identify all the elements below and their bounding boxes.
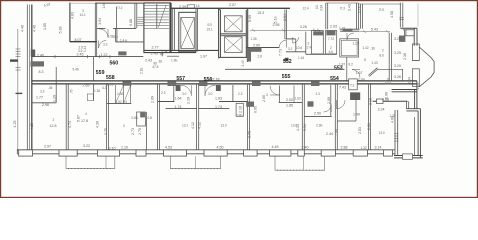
svg-text:3.2: 3.2 <box>288 47 293 51</box>
svg-text:5.28: 5.28 <box>59 27 63 34</box>
svg-text:3.54: 3.54 <box>303 124 307 131</box>
door arc room560a <box>100 29 109 38</box>
svg-text:36: 36 <box>159 59 163 63</box>
svg-text:1.68: 1.68 <box>102 2 106 8</box>
svg-text:3.84: 3.84 <box>320 5 324 11</box>
wall vertical x97.6 pair <box>95 3 96 57</box>
svg-text:554: 554 <box>330 76 339 82</box>
svg-text:2.90: 2.90 <box>253 44 260 48</box>
svg-text:8.3: 8.3 <box>39 70 44 74</box>
svg-text:1.44: 1.44 <box>83 46 87 52</box>
552s step horiz pair <box>406 109 420 111</box>
south wall left corner vert <box>16 149 18 154</box>
svg-text:2.73: 2.73 <box>131 128 135 135</box>
window pier 10 <box>321 150 335 156</box>
svg-text:3.3: 3.3 <box>40 89 45 93</box>
unit divider 557|556 <box>197 84 199 150</box>
svg-text:2.04: 2.04 <box>408 77 412 84</box>
svg-text:2.4: 2.4 <box>307 46 312 50</box>
svg-text:3: 3 <box>266 93 268 97</box>
svg-text:557: 557 <box>176 76 185 82</box>
door leaf top entry <box>187 4 194 8</box>
staircase outer box <box>143 3 171 52</box>
elevator E1 outer <box>179 12 196 52</box>
T3 shaft box <box>340 39 359 57</box>
elevator E3 cross <box>225 37 243 53</box>
hatch sill 554 <box>311 82 320 86</box>
svg-text:1.74: 1.74 <box>175 105 182 109</box>
wall top A y3.2 <box>70 2 95 4</box>
svg-text:5.09: 5.09 <box>248 15 252 22</box>
balcony 1 outline <box>66 156 115 168</box>
556 bath vert <box>232 85 234 102</box>
svg-text:7.43: 7.43 <box>339 85 346 89</box>
552s step vert pair <box>406 101 408 108</box>
wall y69.5 right <box>378 68 403 70</box>
wall top B y8.3 <box>171 7 290 9</box>
staircase steps <box>145 5 169 28</box>
svg-text:1.95: 1.95 <box>107 83 114 87</box>
svg-text:4.25: 4.25 <box>30 123 34 130</box>
svg-text:3.64: 3.64 <box>98 18 102 25</box>
svg-text:4.2: 4.2 <box>102 86 107 90</box>
553 wall x356 <box>355 100 357 121</box>
svg-text:15: 15 <box>196 4 200 8</box>
window pier 6 <box>204 150 227 156</box>
hatch box west wall <box>31 50 35 57</box>
hatch pillar 557 <box>176 85 181 91</box>
svg-text:2.19: 2.19 <box>187 97 191 104</box>
dim line y32 with ticks <box>360 30 390 33</box>
wall internal x116 lower pair <box>116 28 117 42</box>
558 closet verticals <box>116 85 131 103</box>
svg-text:3.25: 3.25 <box>394 37 401 41</box>
svg-text:2.64: 2.64 <box>283 14 287 21</box>
door arc 553 <box>337 100 346 109</box>
559 bath vert x56 <box>55 67 57 103</box>
554 bath vert <box>330 85 332 116</box>
svg-text:1.52 4.4: 1.52 4.4 <box>116 100 128 104</box>
svg-text:13.1: 13.1 <box>182 124 188 128</box>
svg-text:5.46: 5.46 <box>73 68 79 72</box>
wall wc x295.8 <box>295 39 297 52</box>
svg-text:1.49: 1.49 <box>353 112 360 116</box>
bayroom west wall pair <box>389 33 391 81</box>
556 bath wall y101.5 <box>219 101 248 103</box>
window pier 7 <box>244 150 258 156</box>
corridor bottom wall pair <box>32 81 417 84</box>
svg-text:47.8: 47.8 <box>152 65 158 69</box>
svg-text:1.97: 1.97 <box>200 55 207 59</box>
svg-text:1.4 в: 1.4 в <box>120 39 127 43</box>
hatch pillar 556 <box>216 85 221 91</box>
svg-text:2.43: 2.43 <box>145 59 152 63</box>
door arc 552entry <box>279 40 286 48</box>
wall y38.9 <box>286 38 296 40</box>
SE inner east line <box>414 117 416 156</box>
svg-text:1.16: 1.16 <box>298 56 304 60</box>
wall T3 to vestibule <box>346 57 348 69</box>
svg-text:3.20: 3.20 <box>394 64 401 68</box>
557 hall wall y108.4 <box>166 107 197 109</box>
svg-text:1.64: 1.64 <box>175 96 182 100</box>
svg-text:12.4: 12.4 <box>303 7 309 11</box>
wall stair south pair y51.5 <box>143 50 218 52</box>
wall west tick lower <box>16 92 23 94</box>
svg-text:3.43: 3.43 <box>348 4 352 11</box>
hatch block wc b <box>326 30 335 35</box>
svg-text:2.45: 2.45 <box>77 52 84 56</box>
balcony 2 divider <box>195 156 197 168</box>
svg-text:2.43: 2.43 <box>241 60 245 66</box>
svg-text:1.20: 1.20 <box>353 41 359 45</box>
svg-text:4.14: 4.14 <box>296 124 300 131</box>
wall pair x361.5 P5 <box>361 4 363 29</box>
wall y54.3 cells <box>306 53 337 55</box>
svg-text:П.2: П.2 <box>118 6 123 10</box>
svg-text:2.36: 2.36 <box>403 53 407 60</box>
555 bath wall y102.4 <box>279 101 303 103</box>
SE west hatch marks <box>394 134 398 142</box>
svg-text:8.2: 8.2 <box>349 63 354 67</box>
T3 corridor box <box>349 79 358 90</box>
svg-text:8.6: 8.6 <box>380 54 385 58</box>
wall elevator lobby east pair <box>196 8 197 51</box>
554 hatch block <box>308 101 314 106</box>
unit divider 559|558 <box>107 84 109 150</box>
window pier 2 <box>59 150 77 156</box>
NE corner wall inner y29 <box>403 29 414 31</box>
svg-text:6: 6 <box>387 78 389 82</box>
svg-text:2.1Б: 2.1Б <box>140 67 144 74</box>
svg-text:4.06: 4.06 <box>391 116 395 123</box>
svg-text:4.12: 4.12 <box>191 122 195 129</box>
svg-text:2.97: 2.97 <box>44 144 51 148</box>
555 bath mid vert <box>293 86 295 103</box>
SE south wall pair <box>394 156 423 158</box>
svg-text:2.95: 2.95 <box>273 23 280 27</box>
svg-text:7.48: 7.48 <box>335 129 339 136</box>
svg-text:2.6: 2.6 <box>114 35 119 39</box>
svg-text:2.10: 2.10 <box>239 106 243 113</box>
room 15.3 east wall pair <box>285 10 287 40</box>
svg-text:П.3: П.3 <box>340 7 345 11</box>
wall top P5 thin <box>358 3 401 5</box>
svg-text:13.0: 13.0 <box>379 131 385 135</box>
door arc 557 <box>181 85 192 96</box>
svg-text:2.09: 2.09 <box>327 97 331 104</box>
door arc 555 <box>270 86 279 95</box>
window pier 8 <box>270 150 291 156</box>
leader line x418 top <box>417 3 419 26</box>
svg-text:П.5: П.5 <box>379 8 384 12</box>
svg-text:2.36: 2.36 <box>117 92 123 96</box>
svg-text:3.26: 3.26 <box>394 75 401 79</box>
svg-text:1.67: 1.67 <box>356 71 363 75</box>
hatch sill 560 door <box>118 51 126 55</box>
wire west wall line 2 <box>26 5 28 151</box>
unit divider 555|554 <box>302 84 304 150</box>
window pair x401.5 NE <box>400 3 403 28</box>
svg-text:3: 3 <box>123 124 125 128</box>
window pier 3 <box>97 150 119 156</box>
svg-text:2.77: 2.77 <box>152 46 159 50</box>
svg-text:1.87: 1.87 <box>339 63 345 67</box>
svg-text:2.3: 2.3 <box>238 92 243 96</box>
NE corner east pair <box>414 28 417 46</box>
svg-text:0.88: 0.88 <box>132 116 138 120</box>
svg-text:2.81: 2.81 <box>367 123 371 130</box>
svg-text:3.75: 3.75 <box>104 128 108 135</box>
svg-text:7.72: 7.72 <box>328 37 334 41</box>
svg-text:.36: .36 <box>371 47 376 51</box>
svg-text:555: 555 <box>282 74 291 80</box>
svg-text:2.76: 2.76 <box>138 128 142 135</box>
hatch strip 552entry vertical <box>247 48 251 62</box>
balcony 3 outline <box>275 156 325 170</box>
wall x305.8 <box>305 32 307 55</box>
svg-text:2: 2 <box>53 118 55 122</box>
svg-text:3.25: 3.25 <box>394 51 401 55</box>
window box bay north <box>412 44 419 61</box>
hatch sill 557 <box>168 82 177 86</box>
556 hall wall y108.4 <box>199 107 230 109</box>
window box bay south <box>412 69 419 87</box>
svg-text:.36: .36 <box>48 86 53 90</box>
svg-text:0.8Б: 0.8Б <box>236 113 243 117</box>
558 wall x146.6 <box>146 112 148 150</box>
svg-text:10.: 10. <box>315 4 319 9</box>
svg-text:15.1: 15.1 <box>207 28 213 32</box>
SE window pier <box>403 154 413 159</box>
door arc lobby <box>162 51 167 56</box>
unit divider 554|553 <box>335 84 337 150</box>
svg-text:2.83: 2.83 <box>358 127 362 134</box>
557 bath vert <box>173 85 175 102</box>
hatch sill corridor 559 <box>31 61 45 66</box>
elevator E1 cross <box>181 18 195 49</box>
svg-text:1.29: 1.29 <box>53 95 57 102</box>
hatch lines wall x137-143 <box>138 17 144 25</box>
wall internal y41.9 <box>116 41 144 43</box>
SE west wall <box>395 110 398 156</box>
pier on wall y101 <box>377 99 384 104</box>
window pier 4 <box>136 150 146 156</box>
wall internal y28.4 <box>97 27 136 29</box>
svg-text:4.46: 4.46 <box>33 25 37 32</box>
svg-text:13.0: 13.0 <box>221 124 227 128</box>
corridor wall ticks <box>55 55 110 58</box>
window pier 9 <box>298 150 305 156</box>
svg-text:4.74: 4.74 <box>68 121 72 128</box>
559 door box <box>87 94 93 101</box>
svg-text:2.78: 2.78 <box>248 131 252 138</box>
window sill ticks NE <box>399 18 403 20</box>
unit divider 556|555 <box>248 84 250 150</box>
svg-text:2: 2 <box>382 49 384 53</box>
svg-text:1.9Б: 1.9Б <box>171 59 178 63</box>
wall E2 E3 divider <box>220 35 246 37</box>
hatch sill 552entry <box>250 48 262 52</box>
wall wc y51.8 <box>286 51 306 53</box>
558 shaft box <box>137 112 146 126</box>
door arc room560b <box>99 41 107 49</box>
559 door wall x93.5 <box>93 84 95 101</box>
wire west wall line 3 <box>28 5 30 151</box>
svg-text:БЛ: БЛ <box>208 23 212 27</box>
NE corner wall outer y27.2 <box>400 27 417 29</box>
svg-text:2.3: 2.3 <box>316 92 321 96</box>
svg-text:3.14: 3.14 <box>375 145 382 149</box>
NE inner vert x405 <box>405 30 406 36</box>
559 corridor wall x93.5 <box>93 57 95 81</box>
svg-text:1.15: 1.15 <box>339 27 345 31</box>
555 bath west vert <box>279 86 281 103</box>
elevator E3 inner <box>225 37 243 53</box>
wire west wall line 4 <box>31 5 33 151</box>
552s wall y101.3 <box>373 100 408 102</box>
svg-text:3.3: 3.3 <box>103 43 108 47</box>
svg-text:4.12: 4.12 <box>198 122 202 129</box>
558 closet south y103.4 <box>107 102 132 104</box>
hatch pier 555 <box>246 102 254 107</box>
east wall mid pair <box>415 81 417 109</box>
svg-text:1.36: 1.36 <box>94 89 100 93</box>
556 wc box <box>236 103 243 116</box>
553 wall y121 <box>337 120 356 122</box>
svg-text:12.8: 12.8 <box>50 124 57 128</box>
svg-text:5.43: 5.43 <box>371 28 378 32</box>
svg-text:4.50: 4.50 <box>217 145 224 149</box>
wall corridor top y56.6 <box>32 56 143 58</box>
svg-text:4.58: 4.58 <box>390 11 394 18</box>
unit divider 553|552 <box>368 84 370 150</box>
south wall double line <box>17 150 395 154</box>
balcony 3 divider <box>302 156 304 170</box>
elevator E1 inner <box>181 18 195 49</box>
svg-text:4.53: 4.53 <box>165 145 172 149</box>
svg-text:552: 552 <box>283 59 292 65</box>
svg-text:3.0: 3.0 <box>208 92 213 96</box>
svg-text:0.65: 0.65 <box>254 106 258 113</box>
svg-text:1.43: 1.43 <box>372 61 378 65</box>
svg-text:17.8: 17.8 <box>81 119 88 123</box>
svg-text:0.64: 0.64 <box>359 77 365 81</box>
svg-text:4.25: 4.25 <box>13 121 17 128</box>
svg-text:2.44: 2.44 <box>326 132 333 136</box>
elevator bank walls <box>219 8 248 62</box>
svg-text:4.16: 4.16 <box>358 6 362 13</box>
svg-text:0.8: 0.8 <box>148 116 153 120</box>
balcony 2 outline <box>170 156 220 168</box>
svg-text:22.78: 22.78 <box>211 77 220 81</box>
svg-text:15.3: 15.3 <box>257 11 264 15</box>
svg-text:1.36: 1.36 <box>251 37 257 41</box>
svg-text:7.73: 7.73 <box>278 49 282 56</box>
svg-text:3.0: 3.0 <box>182 92 187 96</box>
svg-text:2.04: 2.04 <box>416 83 420 90</box>
svg-text:559: 559 <box>96 70 105 76</box>
wall x403 vest pair <box>402 69 404 81</box>
balcony 3 dots <box>277 169 323 171</box>
door arc 554 <box>324 105 332 113</box>
corridor top right y69.3 <box>225 68 345 70</box>
svg-text:4: 4 <box>85 112 87 116</box>
svg-text:2.09: 2.09 <box>151 96 155 103</box>
wall pair x326.6 loggia P3 <box>326 3 328 29</box>
svg-text:2.3Б: 2.3Б <box>316 124 323 128</box>
door arc vestibule <box>352 70 360 78</box>
elevator E2 inner <box>225 16 243 32</box>
balcony 2 dots <box>172 168 219 170</box>
svg-text:1.77: 1.77 <box>36 95 43 99</box>
hatch pier NE <box>399 36 405 42</box>
vestibule diagonal pair <box>368 68 378 77</box>
hatch sill 556 <box>199 82 208 86</box>
svg-text:2.3: 2.3 <box>161 91 166 95</box>
svg-text:4.49: 4.49 <box>272 145 279 149</box>
wall y47.5 unit552 entry <box>246 47 279 49</box>
door arc P3 <box>347 33 354 40</box>
558 closet diagonals <box>116 85 131 103</box>
hatch sill 555 <box>252 82 261 86</box>
wall room360 south y43.5 <box>70 41 97 43</box>
hatch block wc a <box>313 31 323 35</box>
bay mid sill lines <box>412 61 419 69</box>
hatch sill 558 door <box>123 81 132 85</box>
elevator E2 cross <box>225 16 243 32</box>
SE east wall pair <box>418 109 420 158</box>
svg-text:0.88: 0.88 <box>129 19 133 26</box>
554 bath wall y116.4 <box>304 115 331 117</box>
svg-text:2.96: 2.96 <box>42 103 49 107</box>
svg-text:1.22: 1.22 <box>101 53 108 57</box>
svg-text:3.22: 3.22 <box>83 144 90 148</box>
staircase arrow diagonal <box>158 5 166 27</box>
balcony 1 divider <box>105 156 107 168</box>
unit divider 558|557 <box>158 84 160 150</box>
window pier 12 <box>384 150 393 156</box>
hatch block northmid <box>343 29 353 32</box>
svg-text:1.10: 1.10 <box>121 146 128 150</box>
svg-text:2.50: 2.50 <box>314 112 321 116</box>
557 bath wall y101.5 <box>158 101 175 103</box>
svg-text:5.87: 5.87 <box>77 115 81 122</box>
wall internal x116.4 upper <box>115 7 117 29</box>
svg-text:1.74: 1.74 <box>215 105 222 109</box>
svg-text:1.32: 1.32 <box>361 146 367 150</box>
svg-text:2.43: 2.43 <box>151 52 158 56</box>
wall top-left room west <box>69 3 71 42</box>
NE inner line y35.8 <box>405 35 415 37</box>
svg-text:1.85: 1.85 <box>43 23 47 30</box>
svg-text:2.93: 2.93 <box>330 25 337 29</box>
wall pair x357.4 <box>356 3 358 29</box>
svg-text:13.0: 13.0 <box>385 82 391 86</box>
svg-text:2.00: 2.00 <box>286 98 293 102</box>
wall lobby south thin <box>167 55 179 57</box>
svg-text:4.46: 4.46 <box>21 25 25 32</box>
wall west tick upper <box>10 59 18 61</box>
closet box a <box>312 31 324 54</box>
svg-text:2.18: 2.18 <box>368 98 372 105</box>
553 hatch pillar <box>350 92 360 100</box>
wall pair x134.5 <box>135 3 137 28</box>
staircase mid rail <box>156 4 158 29</box>
svg-text:10.6: 10.6 <box>296 46 302 50</box>
svg-text:1.63: 1.63 <box>215 96 222 100</box>
558 shaft dark <box>140 112 145 117</box>
